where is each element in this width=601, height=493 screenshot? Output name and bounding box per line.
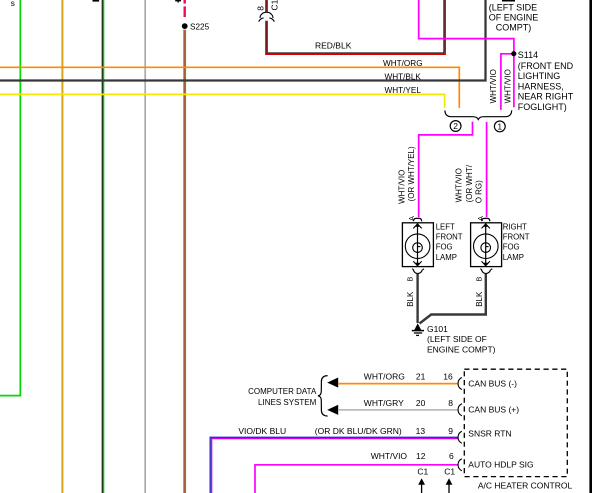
svg-text:C1: C1 (417, 466, 428, 476)
svg-text:LINES SYSTEM: LINES SYSTEM (258, 398, 317, 407)
A/C heater control box (464, 369, 567, 476)
svg-text:8: 8 (256, 6, 266, 11)
svg-text:LEFT: LEFT (436, 222, 455, 231)
svg-text:SNSR RTN: SNSR RTN (468, 429, 511, 439)
svg-text:B: B (405, 277, 414, 282)
svg-text:WHT/ORG: WHT/ORG (383, 59, 423, 68)
wire RED/BLK: connector stub, down, right, up to top (265, 0, 267, 12)
wire WHT/VIO second branch (501, 54, 514, 110)
wire WHT/ORG to can bus - (338, 383, 459, 385)
svg-text:BLK: BLK (475, 291, 484, 307)
svg-text:LIGHTING: LIGHTING (518, 71, 561, 81)
svg-text:RED/BLK: RED/BLK (315, 41, 352, 51)
svg-text:(OR WHT/: (OR WHT/ (465, 164, 474, 202)
svg-text:FRONT: FRONT (436, 233, 463, 242)
label fragment above GRN/BLK (93, 0, 100, 2)
border frame right edge (589, 0, 592, 493)
wire BLK left lamp to ground (416, 274, 418, 323)
svg-text:WHT/ORG: WHT/ORG (364, 371, 405, 381)
wire WHT/GRY to can bus + (338, 409, 459, 411)
svg-text:FRONT: FRONT (503, 233, 530, 242)
svg-text:LAMP: LAMP (436, 253, 457, 262)
svg-text:G101: G101 (427, 324, 448, 334)
svg-text:(LEFT SIDE OF: (LEFT SIDE OF (427, 334, 487, 344)
wire GRN/BLK vertical (101, 0, 103, 493)
svg-text:A/C HEATER CONTROL: A/C HEATER CONTROL (478, 480, 573, 490)
svg-text:CAN BUS (+): CAN BUS (+) (468, 405, 519, 415)
svg-text:O RG): O RG) (475, 180, 484, 203)
svg-text:OF ENGINE: OF ENGINE (489, 13, 539, 23)
svg-text:WHT/VIO: WHT/VIO (503, 69, 512, 103)
svg-text:(LEFT SIDE: (LEFT SIDE (489, 3, 537, 13)
svg-text:WHT/VIO: WHT/VIO (371, 451, 408, 461)
svg-text:VIO/DK BLU: VIO/DK BLU (238, 426, 286, 436)
svg-text:COMPT): COMPT) (496, 22, 532, 32)
left front fog lamp U (402, 223, 433, 267)
svg-text:WHT/GRY: WHT/GRY (364, 398, 404, 408)
ground G101 (414, 323, 421, 330)
wire WHT/VIO to left fog lamp (419, 122, 473, 218)
svg-text:13: 13 (416, 426, 426, 436)
wire WHT/VIO magenta from top (419, 0, 514, 107)
svg-text:FOG: FOG (503, 243, 520, 252)
wire WHT/VIO to right fog lamp (486, 122, 488, 217)
svg-text:WHT/VIO: WHT/VIO (454, 168, 463, 202)
splice S114 (511, 51, 516, 56)
pin 2 (450, 121, 461, 132)
wire amber vertical (61, 0, 63, 493)
svg-text:C1: C1 (444, 466, 455, 476)
wire WHT/YEL horizontal (0, 94, 445, 108)
arrow to computer data 2 (327, 405, 338, 415)
svg-text:RIGHT: RIGHT (503, 222, 527, 231)
svg-text:6: 6 (449, 451, 454, 461)
svg-text:HARNESS,: HARNESS, (518, 81, 564, 91)
wire WHT/VIO from bottom (255, 465, 459, 493)
arrow C1 left (421, 483, 423, 493)
svg-text:C1: C1 (269, 0, 279, 11)
svg-text:(OR WHT/YEL): (OR WHT/YEL) (407, 146, 416, 201)
wire BLK right lamp to ground (420, 274, 486, 324)
connector brace (445, 110, 512, 119)
pin 9 socket (458, 431, 462, 443)
svg-text:WHT/BLK: WHT/BLK (385, 72, 422, 81)
svg-text:BLK: BLK (406, 291, 415, 307)
svg-text:WHT/VIO: WHT/VIO (489, 69, 498, 103)
svg-text:CAN BUS (-): CAN BUS (-) (468, 378, 517, 388)
svg-text:FOG: FOG (436, 243, 453, 252)
wire WHT/ORG horizontal (0, 67, 459, 108)
svg-text:(OR DK BLU/DK GRN): (OR DK BLU/DK GRN) (315, 426, 402, 436)
wire gray vertical (144, 0, 146, 493)
svg-text:B: B (475, 277, 484, 282)
wire WHT/BLK horizontal, up right side (0, 0, 486, 81)
svg-text:1: 1 (497, 122, 502, 132)
svg-text:NEAR RIGHT: NEAR RIGHT (518, 92, 574, 102)
wire red dashed top (183, 0, 185, 4)
svg-text:12: 12 (416, 451, 426, 461)
wire RED/GRN vertical (183, 30, 185, 493)
brace computer data (318, 376, 328, 417)
arrow to computer data 1 (327, 378, 338, 388)
svg-text:20: 20 (416, 398, 426, 408)
svg-text:COMPUTER DATA: COMPUTER DATA (248, 387, 317, 396)
wire VIO/DK BLU from bottom (210, 437, 458, 493)
svg-text:21: 21 (416, 371, 426, 381)
svg-text:ENGINE COMPT): ENGINE COMPT) (427, 345, 496, 355)
connector C1 pin 8 top (260, 12, 273, 18)
svg-text:2: 2 (453, 121, 458, 131)
pin 6 socket (458, 459, 462, 471)
svg-text:WHT/YEL: WHT/YEL (385, 86, 422, 95)
right front fog lamp U (471, 223, 502, 267)
wire green vertical left (0, 0, 20, 396)
label fragment above red dashed wire (175, 0, 181, 1)
arrow C1 right (448, 483, 450, 493)
svg-text:WHT/VIO: WHT/VIO (398, 170, 407, 204)
svg-text:S114: S114 (518, 50, 538, 60)
svg-text:s: s (11, 0, 15, 8)
svg-text:LAMP: LAMP (503, 253, 524, 262)
pin 16 socket (458, 378, 462, 390)
svg-text:AUTO HDLP SIG: AUTO HDLP SIG (468, 459, 533, 469)
svg-text:(FRONT END: (FRONT END (518, 61, 574, 71)
svg-text:FOGLIGHT): FOGLIGHT) (518, 102, 567, 112)
svg-text:9: 9 (448, 426, 453, 436)
svg-text:8: 8 (448, 398, 453, 408)
node S1xx text top right (502, 0, 515, 2)
svg-text:16: 16 (443, 371, 453, 381)
pin 1 (494, 121, 505, 132)
splice S225 (182, 23, 188, 29)
pin 8 socket (458, 404, 462, 416)
svg-text:S225: S225 (190, 23, 210, 32)
